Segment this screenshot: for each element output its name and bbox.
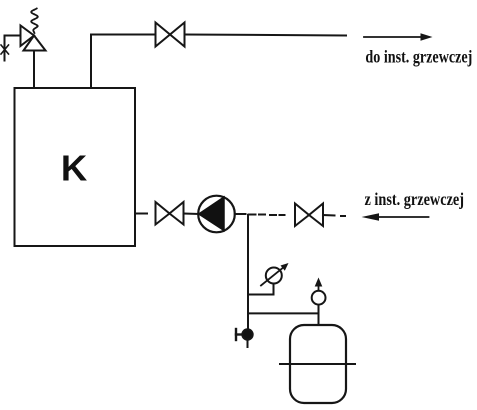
wire boiler return stub [135,213,147,215]
valve V2 (return, near boiler) [156,202,170,225]
safety valve SV bottom triangle [24,36,46,51]
wire dash before arrow [341,215,345,217]
wire drain stub [247,340,249,348]
arrow to installation [364,33,433,40]
boiler K [15,88,136,246]
pressure gauge M circle [266,268,282,284]
drain valve D body [242,329,252,339]
vent cross mark [1,45,9,54]
wire boiler top to supply pipe [91,35,156,89]
pump P rotor triangle [199,197,224,231]
pump P circle [198,196,235,233]
drain valve D handle [235,329,237,340]
wire safety valve to boiler [33,51,35,89]
valve V3 (return, right) [295,204,309,227]
wire gauge branch [248,284,274,295]
safety valve SV side triangle [21,26,35,47]
svg-text:do inst. grzewczej: do inst. grzewczej [365,47,472,67]
wire expansion branch vertical [247,215,249,330]
expansion vessel N shell [290,325,346,403]
wire pump outlet [235,213,246,215]
wire dashed return segment [249,214,285,217]
arrow from installation [362,213,429,221]
wire supply pipe right [185,35,347,36]
safety valve SV discharge squiggle [31,9,38,34]
drain valve D stem [236,333,242,335]
valve V1 (supply) [156,23,171,47]
expansion vessel N membrane line [280,363,355,365]
vent arrow up [315,278,323,291]
pressure gauge M arrow [261,263,289,286]
wire vessel branch horizontal [248,312,319,314]
wire valve V3 right stub [323,214,335,217]
svg-text:z inst. grzewczej: z inst. grzewczej [365,189,465,209]
svg-text:K: K [61,148,88,189]
wire safety valve inlet horizontal [5,36,21,61]
wire vent to vessel [318,305,320,325]
vent valve on vessel circle [312,291,326,305]
wire valve V2 to pump [184,213,199,216]
